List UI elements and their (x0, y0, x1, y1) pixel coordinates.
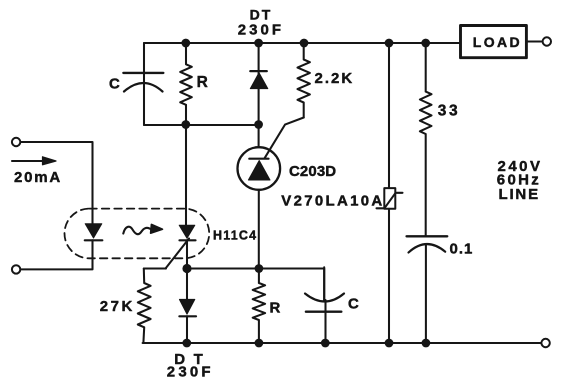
svg-text:C: C (109, 76, 120, 93)
svg-text:33: 33 (438, 103, 460, 120)
wire top rail (144, 42, 459, 44)
node top of R2 (255, 264, 264, 273)
photo-SCR lead from R1 bottom (185, 125, 187, 226)
resistor 27K (138, 269, 151, 344)
light arrow head (151, 224, 163, 233)
wire bottom rail (143, 342, 541, 344)
node top of 33 (421, 39, 430, 48)
SCR C203D anode lead (258, 125, 260, 148)
node top of 2.2K (300, 39, 309, 48)
node bottom of D2 (182, 339, 191, 348)
svg-text:230F: 230F (167, 364, 214, 381)
resistor R2 (253, 269, 265, 344)
capacitor C2 bottom lead (324, 267, 325, 343)
capacitor C1 curved plate (124, 83, 163, 92)
svg-text:27K: 27K (100, 298, 135, 315)
diode D1 DT230F lead (258, 47, 260, 124)
node bottom of R2 (255, 339, 264, 348)
wire input top (21, 142, 93, 223)
capacitor C2 bottom plate (306, 311, 341, 313)
node bottom of D1 / anode of C203D (254, 120, 263, 129)
optocoupler H11C4 dashed outline (65, 209, 210, 259)
svg-text:V270LA10A: V270LA10A (281, 193, 384, 210)
wire left branch capacitor C1 lead (143, 43, 145, 125)
node top of varistor (385, 39, 394, 48)
node bottom of varistor (385, 339, 394, 348)
varistor body (384, 188, 395, 209)
svg-text:C203D: C203D (289, 163, 336, 180)
photo-SCR cathode bar (180, 239, 196, 241)
LED cathode bar (85, 239, 103, 241)
resistor 2.2K (298, 47, 310, 118)
svg-text:20mA: 20mA (14, 169, 62, 186)
wire sub-rail under top section (144, 124, 259, 126)
node bottom of 0.1 (422, 339, 431, 348)
wire 2.2K elbow to gate of C203D (265, 118, 304, 159)
photo-SCR triangle (179, 225, 195, 238)
svg-text:0.1: 0.1 (450, 241, 474, 258)
capacitor 0.1 top plate (407, 235, 448, 237)
capacitor 0.1 curved plate (409, 244, 446, 252)
varistor slash (377, 193, 403, 209)
diode D1 triangle (250, 73, 267, 89)
SCR C203D cathode bar (249, 158, 268, 160)
input current arrow line (12, 160, 44, 162)
SCR C203D triangle (248, 161, 270, 181)
capacitor 0.1 bottom lead (425, 245, 427, 344)
terminal bottom right (541, 339, 549, 347)
LOAD box (461, 26, 527, 58)
svg-text:C: C (348, 296, 359, 313)
node photo-SCR cathode junction (182, 264, 191, 273)
svg-text:230F: 230F (238, 22, 284, 39)
terminal top right (543, 37, 551, 45)
photo-SCR cathode lead (186, 240, 188, 268)
capacitor C2 curved plate (305, 294, 344, 302)
diode D2 triangle (179, 299, 194, 314)
SCR C203D cathode lead (258, 190, 260, 269)
svg-text:DT: DT (250, 7, 273, 23)
svg-text:R: R (270, 300, 281, 317)
SCR C203D circle (237, 147, 280, 190)
varistor V270LA10A lead top (388, 43, 390, 188)
input current arrow head (43, 157, 57, 165)
svg-text:H11C4: H11C4 (213, 229, 257, 243)
wire mid horizontal gate to 27K corner (144, 267, 166, 269)
node bottom of R1 (181, 120, 190, 129)
terminal input top left (12, 138, 20, 146)
terminal input bottom left (12, 265, 20, 273)
svg-text:R: R (197, 74, 208, 91)
diode D1 cathode bar (250, 70, 266, 72)
photo-SCR gate diagonal (166, 239, 190, 269)
resistor R1 (180, 47, 192, 121)
node bottom of C2 (321, 339, 330, 348)
wire input bottom (21, 240, 93, 269)
diode D2 cathode bar (179, 315, 196, 317)
node top of D1 (254, 39, 263, 48)
node top of R1 (181, 39, 190, 48)
varistor lead bottom (388, 209, 390, 343)
wire mid horizontal to R2 and C2 (187, 269, 324, 302)
diode D2 DT230F lead (186, 269, 188, 344)
resistor 33 (420, 47, 432, 236)
svg-text:LOAD: LOAD (473, 34, 522, 50)
svg-text:2.2K: 2.2K (315, 70, 355, 87)
LED triangle in optocoupler (85, 224, 102, 238)
svg-text:LINE: LINE (499, 186, 540, 203)
wire LOAD to right terminal (528, 40, 543, 42)
capacitor C1 top plate (123, 72, 163, 74)
light transfer squiggle arrow (123, 227, 150, 234)
